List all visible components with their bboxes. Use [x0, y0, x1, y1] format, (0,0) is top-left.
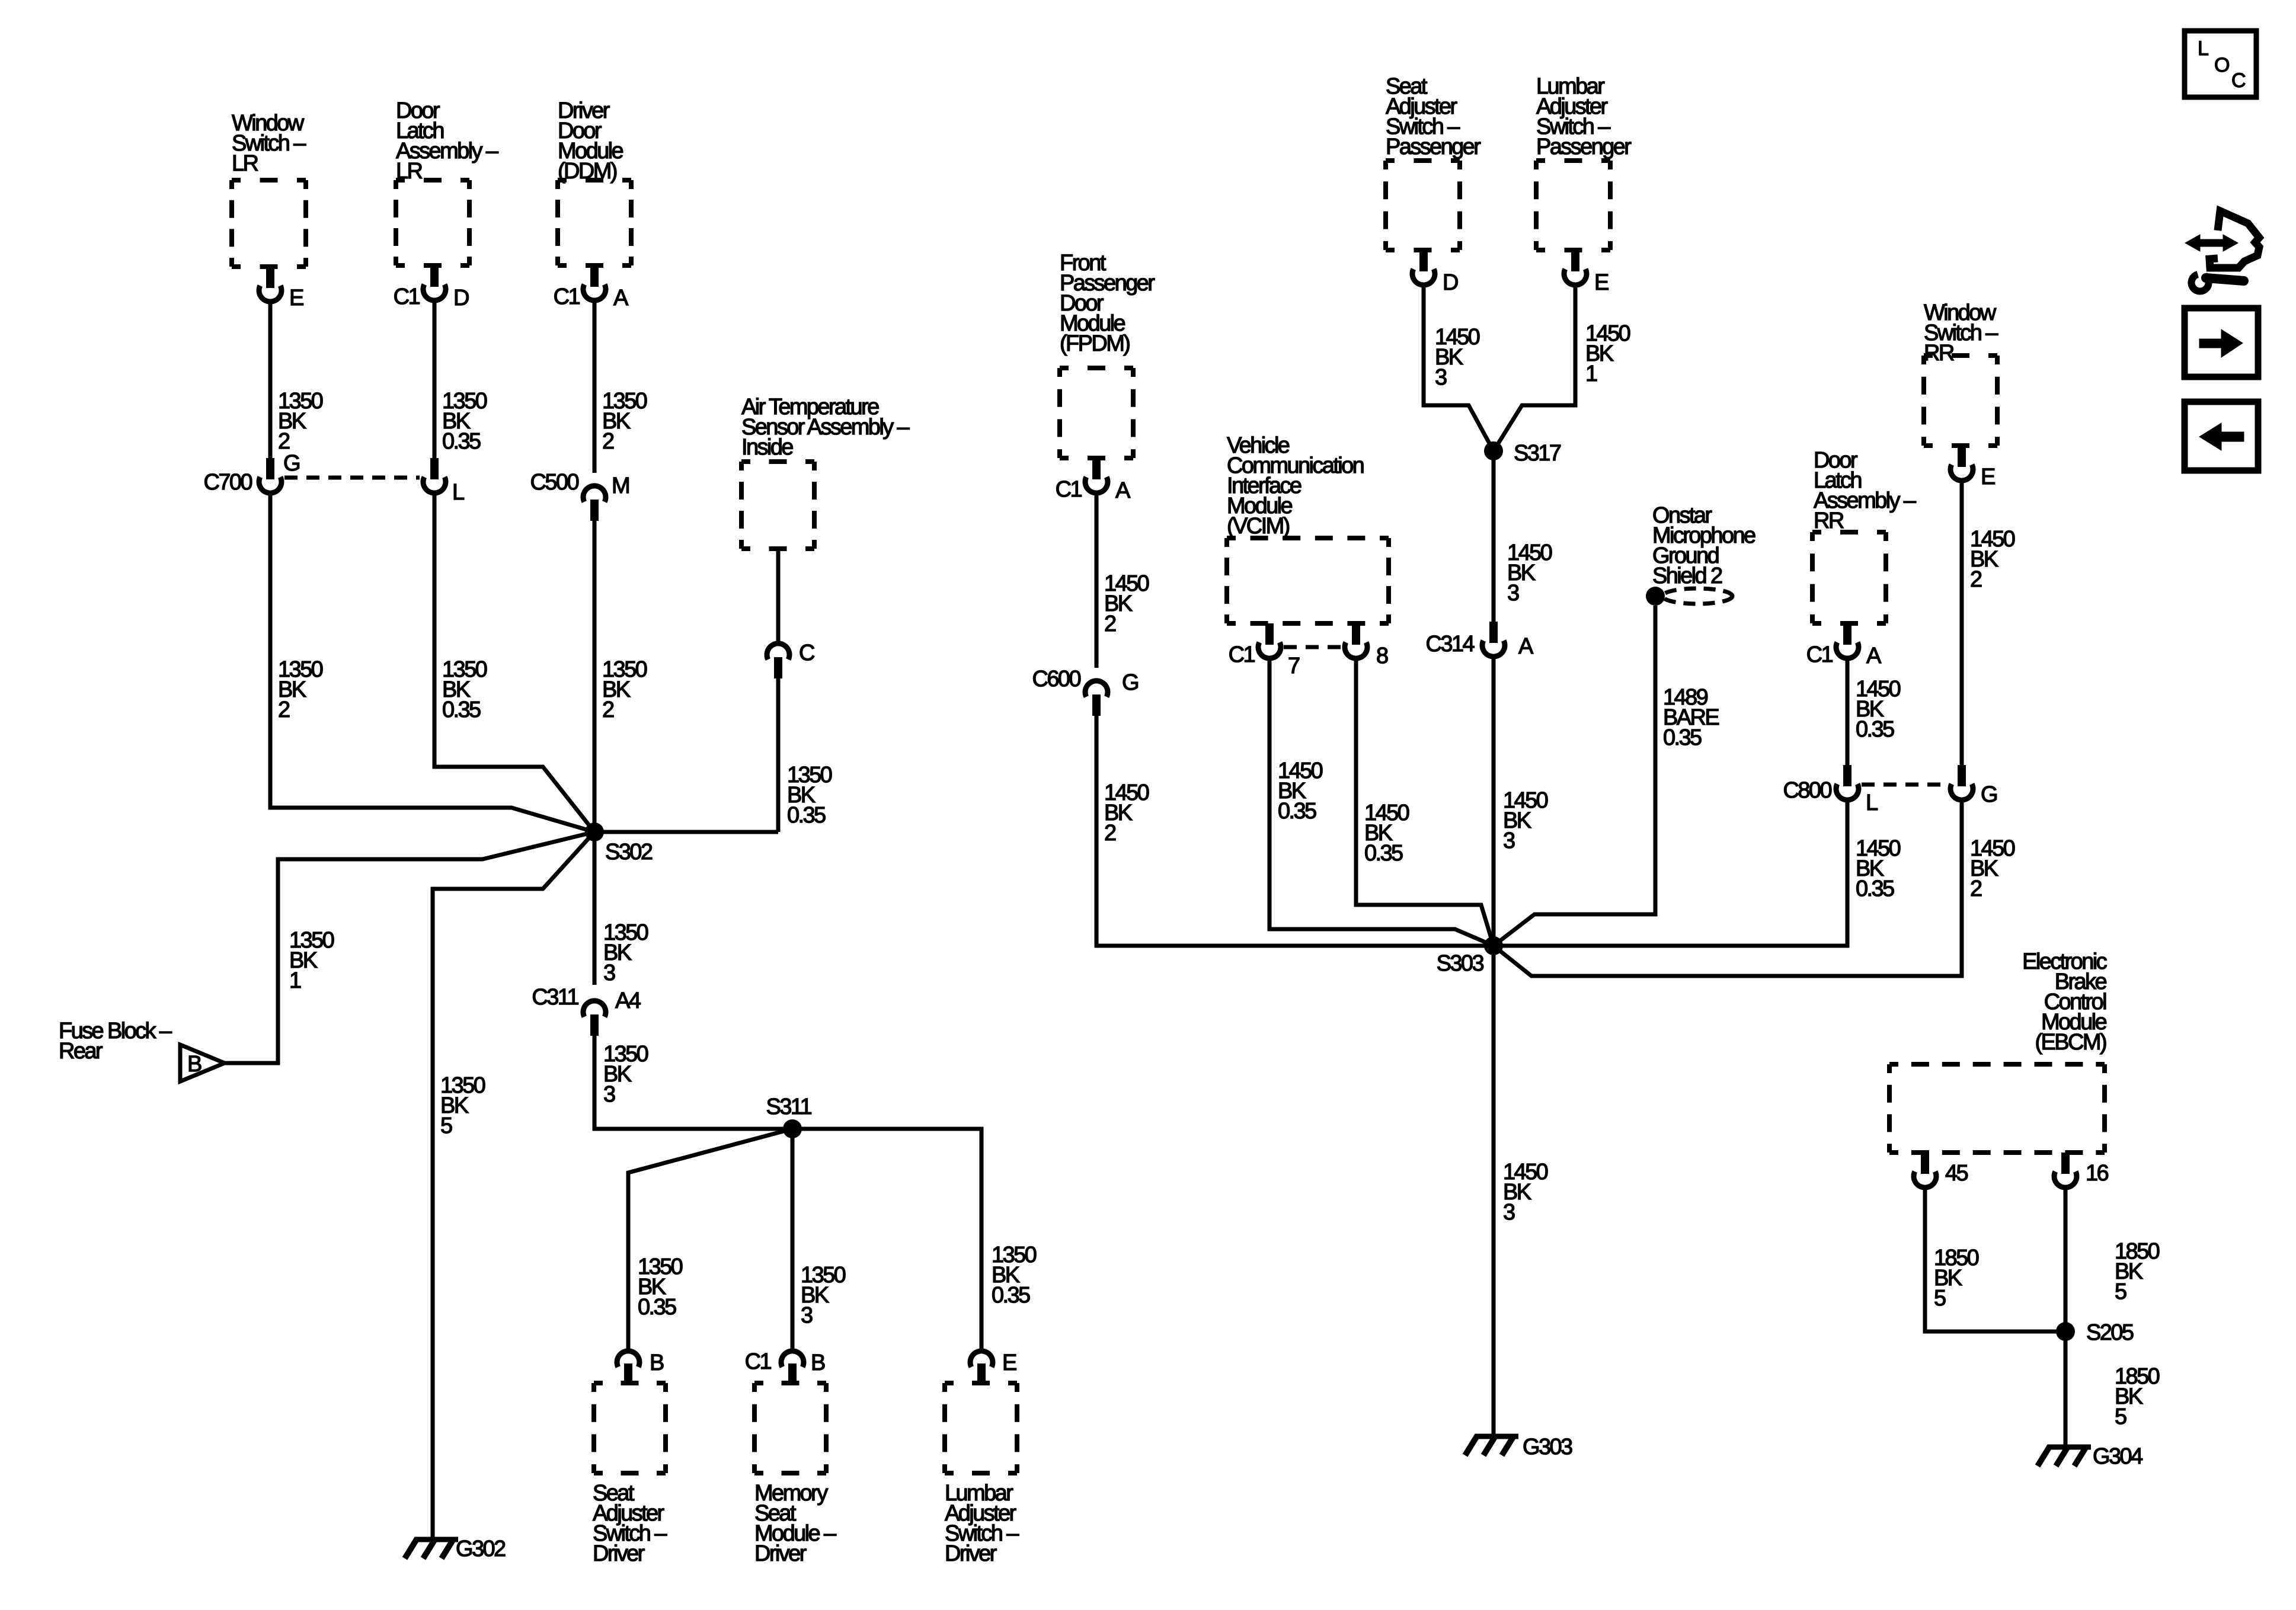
svg-text:C1: C1 [394, 284, 420, 309]
label 1450 BK 0.35 (VCIM 7) [1278, 758, 1323, 824]
connector pin C1-B of Memory Seat Module [745, 1349, 825, 1383]
wire 1350 BK 0.35 from S311 to lumbar E [792, 1129, 981, 1350]
connector pin C1-A of Door Latch RR [1806, 623, 1882, 668]
svg-text:B: B [650, 1350, 664, 1375]
svg-text:D: D [453, 286, 469, 311]
wire 1850 BK 5 from 45 to S205 [1925, 1190, 2065, 1331]
dashed link C800 L to G [1862, 783, 1948, 787]
component box: FPDM [1060, 368, 1133, 458]
component label: Window Switch - RR [1924, 300, 1998, 366]
wire 1450 BK 3 from D to S317 [1424, 287, 1494, 451]
label 1450 BK 3 (C314 to S303) [1503, 788, 1548, 853]
svg-text:(FPDM): (FPDM) [1060, 331, 1130, 356]
splice node S302 [585, 822, 653, 865]
label 1350 BK 3 (memory seat) [801, 1263, 846, 1328]
inline connector C700-G [204, 451, 299, 495]
svg-text:5: 5 [2115, 1404, 2126, 1429]
wire 1450 BK 2 from FPDM-A to C600 [1095, 495, 1099, 668]
wire 1450 BK 0.35 from VCIM-8 to S303 [1356, 661, 1494, 946]
svg-text:G302: G302 [456, 1537, 506, 1561]
wire 1350 BK 1 from fuse B to S302 [225, 832, 594, 1063]
label 1350 BK 2 (DDM lower) [602, 657, 647, 722]
label 1350 BK 3 (below C311) [603, 1042, 648, 1107]
component label: Onstar Microphone Ground Shield 2 [1652, 503, 1755, 588]
wire 1350 BK 2 from C700-G to S302 [270, 495, 594, 832]
component label: Lumbar Adjuster Switch - Passenger [1536, 74, 1632, 159]
component label: Electronic Brake Control Module (EBCM) [2022, 949, 2106, 1055]
svg-text:Passenger: Passenger [1536, 135, 1632, 159]
inline connector C800-G [1950, 765, 1997, 807]
wire from Air Temp C down [776, 678, 781, 832]
component box: Memory Seat Module Driver [754, 1383, 826, 1473]
svg-text:0.35: 0.35 [1364, 841, 1403, 866]
svg-text:0.35: 0.35 [638, 1295, 676, 1320]
connector pin B of Seat Adjuster Switch Driver [617, 1350, 664, 1383]
label 1350 BK 5 [440, 1073, 485, 1138]
component box: Lumbar Adjuster Switch Passenger [1536, 161, 1610, 250]
wire 1350 BK 0.35 from D to C700-L [433, 303, 437, 458]
svg-text:0.35: 0.35 [1663, 725, 1702, 750]
svg-text:3: 3 [603, 1082, 615, 1107]
svg-text:C314: C314 [1426, 632, 1475, 657]
wire 1450 BK 3 from C314 to S303 [1492, 659, 1496, 946]
svg-text:2: 2 [278, 697, 290, 722]
svg-text:S303: S303 [1437, 951, 1484, 976]
svg-text:A: A [1518, 634, 1534, 659]
wire 1450 BK 0.35 from A to C800-L [1846, 661, 1850, 765]
label 1350 BK 3 (above C311) [603, 920, 648, 985]
wire 1350 BK 0.35 from S311 to seat adjuster B [628, 1129, 792, 1350]
component label: Seat Adjuster Switch - Driver [593, 1481, 667, 1566]
inline connector C700-L [423, 458, 464, 505]
svg-text:LR: LR [232, 151, 258, 176]
label 1350 BK 2 (upper left) [278, 389, 323, 454]
component box: DDM [558, 180, 631, 265]
svg-text:L: L [2198, 37, 2209, 60]
svg-text:B: B [811, 1350, 825, 1375]
svg-text:G304: G304 [2093, 1444, 2143, 1469]
fuse block triangle terminal B [180, 1045, 225, 1081]
splice node S303 [1437, 936, 1503, 976]
label 1850 BK 5 (to G304) [2115, 1364, 2160, 1429]
connector pin C of Air Temp Sensor [767, 641, 814, 678]
svg-text:2: 2 [1104, 612, 1116, 636]
svg-text:E: E [1594, 270, 1609, 295]
onstar shield terminal dot [1646, 587, 1665, 606]
svg-text:G303: G303 [1523, 1435, 1572, 1459]
svg-text:G: G [1981, 782, 1997, 807]
component label: Memory Seat Module - Driver [754, 1481, 837, 1566]
connector pin E of Window Switch RR [1950, 446, 1995, 489]
svg-text:8: 8 [1376, 644, 1388, 668]
wire 1350 BK 3 from C311 to S311 [594, 1036, 792, 1129]
label 1350 BK 0.35 (lumbar driver) [992, 1243, 1037, 1308]
wire 1350 BK 2 from DDM-A to C500-M [593, 303, 597, 473]
wire 1450 BK 2 from C600 to S303 [1096, 716, 1494, 946]
svg-text:S302: S302 [605, 840, 653, 865]
svg-text:0.35: 0.35 [442, 429, 481, 454]
svg-text:A: A [1866, 644, 1882, 668]
label 1350 BK 0.35 (door latch upper) [442, 389, 487, 454]
svg-text:2: 2 [602, 697, 614, 722]
svg-text:C700: C700 [204, 470, 252, 495]
wire 1350 BK 2 from C500-M to S302 [593, 521, 597, 832]
svg-text:Rear: Rear [59, 1039, 103, 1064]
label 1450 BK 0.35 (C800-L lower) [1856, 836, 1901, 901]
connector pin C1-7 of VCIM [1229, 623, 1300, 678]
svg-text:0.35: 0.35 [1856, 717, 1894, 742]
component label: Front Passenger Door Module (FPDM) [1060, 251, 1155, 356]
svg-text:0.35: 0.35 [1856, 876, 1894, 901]
wire 1450 BK 1 from E to S317 [1494, 287, 1575, 451]
svg-text:3: 3 [603, 961, 615, 985]
label 1350 BK 0.35 (air temp) [787, 763, 832, 828]
splice node S205 [2056, 1320, 2134, 1345]
svg-text:16: 16 [2086, 1161, 2109, 1186]
svg-text:S205: S205 [2086, 1320, 2134, 1345]
label 1350 BK 2 (DDM upper) [602, 389, 647, 454]
svg-text:Driver: Driver [945, 1541, 997, 1566]
label 1350 BK 0.35 (seat adj driver) [638, 1254, 683, 1320]
label 1450 BK 3 (S317 to C314) [1507, 540, 1552, 606]
svg-text:3: 3 [801, 1303, 813, 1328]
svg-text:C600: C600 [1032, 667, 1081, 692]
icon: LOC box [2185, 31, 2256, 97]
connector pin 16 of EBCM [2054, 1153, 2109, 1188]
wire 1450 BK 0.35 from C800-L to S303 [1494, 802, 1847, 946]
ground G302 [405, 1537, 506, 1561]
wire 1450 BK 2 from E to C800-G [1960, 483, 1964, 765]
svg-text:E: E [1981, 465, 1995, 489]
component label: Air Temperature Sensor Assembly - Inside [741, 395, 910, 460]
connector pin E of Lumbar Adjuster Switch Driver [970, 1350, 1016, 1383]
wire 1489 BARE 0.35 from shield to S303 [1494, 606, 1655, 946]
svg-text:A: A [1115, 478, 1131, 503]
component box: Door Latch Assembly - LR [396, 180, 469, 265]
wire 1450 BK 3 from S317 to C314 [1492, 451, 1496, 622]
svg-text:3: 3 [1507, 581, 1519, 606]
ground G303 [1465, 1435, 1572, 1459]
wire from Air Temp box to C [776, 549, 781, 642]
inline connector C311-A4 [532, 985, 641, 1036]
svg-text:S311: S311 [766, 1094, 811, 1119]
component box: Door Latch Assembly RR [1812, 532, 1886, 623]
label 1350 BK 0.35 (door latch lower) [442, 657, 487, 722]
label 1450 BK 2 (FPDM upper) [1104, 571, 1149, 636]
component box: Lumbar Adjuster Switch Driver [945, 1383, 1017, 1473]
component label: Seat Adjuster Switch - Passenger [1386, 74, 1481, 159]
dashed link C700 G to L [284, 476, 420, 480]
connector pin 45 of EBCM [1914, 1153, 1968, 1188]
svg-text:5: 5 [440, 1113, 452, 1138]
component label: Driver Door Module (DDM) [558, 98, 623, 184]
svg-text:C1: C1 [554, 284, 580, 309]
onstar shield dashed ellipse [1662, 588, 1732, 604]
label 1850 BK 5 (pin 45) [1934, 1246, 1979, 1311]
wire air temp to S302 [594, 830, 778, 834]
icon: forward arrow box [2185, 308, 2258, 377]
svg-text:E: E [1002, 1350, 1016, 1375]
svg-text:1: 1 [289, 968, 301, 993]
svg-text:A4: A4 [615, 988, 641, 1013]
svg-text:Driver: Driver [593, 1541, 645, 1566]
svg-text:G: G [1122, 670, 1138, 695]
connector pin C1-A of DDM [554, 265, 629, 311]
connector pin C1-A of FPDM [1056, 458, 1131, 503]
svg-text:M: M [612, 473, 629, 498]
svg-text:D: D [1443, 270, 1458, 295]
svg-text:C311: C311 [532, 985, 578, 1010]
svg-text:0.35: 0.35 [1278, 799, 1316, 824]
icon: wrench [2192, 274, 2244, 292]
svg-text:3: 3 [1503, 828, 1515, 853]
wire 1350 BK 3 from S311 to memory seat B [791, 1129, 795, 1350]
dashed link VCIM pins [1284, 645, 1342, 649]
label 1450 BK 2 (window RR upper) [1970, 527, 2015, 592]
svg-text:L: L [452, 480, 464, 505]
wire 1350 BK 2 from E to C700-G [268, 304, 273, 458]
svg-text:(EBCM): (EBCM) [2035, 1030, 2106, 1055]
svg-text:C: C [799, 641, 814, 665]
svg-text:0.35: 0.35 [992, 1283, 1030, 1308]
component label: Door Latch Assembly - RR [1814, 448, 1917, 533]
svg-text:1: 1 [1585, 361, 1597, 386]
icon: double arrow [2185, 235, 2238, 251]
inline connector C800-L [1783, 765, 1878, 815]
splice node S317 [1484, 441, 1561, 466]
connector pin E of Window Switch LR [259, 267, 303, 311]
svg-text:E: E [289, 286, 303, 311]
connector pin D of Seat Adjuster Passenger [1412, 250, 1458, 295]
label 1450 BK 0.35 (door RR upper) [1856, 677, 1901, 742]
svg-text:3: 3 [1435, 365, 1447, 390]
svg-text:3: 3 [1503, 1200, 1515, 1225]
svg-text:0.35: 0.35 [787, 803, 826, 828]
svg-text:A: A [613, 286, 629, 311]
splice node S311 [766, 1094, 811, 1138]
wire 1450 BK 2 from C800-G to S303 [1494, 802, 1962, 976]
svg-text:Passenger: Passenger [1386, 135, 1481, 159]
svg-text:O: O [2214, 54, 2230, 76]
svg-text:(VCIM): (VCIM) [1227, 514, 1290, 539]
svg-text:2: 2 [1104, 821, 1116, 846]
component label: Fuse Block - Rear [59, 1019, 172, 1064]
component label: Lumbar Adjuster Switch - Driver [945, 1481, 1019, 1566]
label 1450 BK 3 (S303 to G303) [1503, 1160, 1548, 1225]
label 1350 BK 2 (window lower) [278, 657, 323, 722]
component box: Window Switch RR [1924, 356, 1997, 446]
component box: EBCM [1889, 1064, 2105, 1153]
inline connector C600-G [1032, 667, 1138, 716]
component box: Seat Adjuster Switch Driver [594, 1383, 666, 1473]
wire 1850 BK 5 from S205 to G304 [2064, 1331, 2068, 1445]
svg-text:2: 2 [1970, 567, 1982, 592]
svg-text:C500: C500 [530, 470, 579, 495]
component box: VCIM [1227, 538, 1389, 623]
icon: back arrow box [2185, 402, 2258, 470]
svg-text:2: 2 [278, 429, 290, 454]
svg-text:C1: C1 [745, 1349, 772, 1374]
svg-text:5: 5 [2115, 1279, 2126, 1304]
component box: Air Temp Sensor [741, 462, 814, 549]
connector pin E of Lumbar Adjuster Passenger [1564, 250, 1609, 295]
svg-text:C: C [2231, 69, 2246, 92]
svg-text:C1: C1 [1806, 642, 1833, 667]
component box: Seat Adjuster Switch Passenger [1386, 161, 1460, 250]
svg-text:B: B [187, 1052, 202, 1077]
svg-text:C1: C1 [1229, 642, 1255, 667]
ground G304 [2038, 1444, 2143, 1469]
svg-text:S317: S317 [1514, 441, 1561, 466]
svg-text:2: 2 [602, 429, 614, 454]
svg-text:Shield 2: Shield 2 [1652, 564, 1722, 588]
label 1350 BK 1 [289, 928, 334, 993]
wire 1850 BK 5 from 16 to S205 [2064, 1190, 2068, 1331]
svg-text:L: L [1866, 790, 1878, 815]
svg-text:Driver: Driver [754, 1541, 807, 1566]
label 1489 BARE 0.35 [1663, 685, 1719, 750]
component label: Vehicle Communication Interface Module (VCIM) [1227, 433, 1364, 539]
inline connector C500-M [530, 470, 629, 521]
label 1450 BK 1 (lumbar passenger) [1585, 321, 1630, 386]
label 1450 BK 3 (seat adj passenger) [1435, 325, 1480, 390]
svg-text:C1: C1 [1056, 477, 1082, 502]
connector pin 8 of VCIM [1345, 623, 1388, 668]
component label: Window Switch - LR [232, 111, 306, 176]
wire 1450 BK 0.35 from VCIM-7 to S303 [1269, 661, 1494, 946]
svg-text:RR: RR [1814, 508, 1844, 533]
svg-text:C800: C800 [1783, 778, 1832, 803]
label 1450 BK 2 (FPDM lower) [1104, 780, 1149, 846]
svg-text:45: 45 [1945, 1161, 1968, 1186]
wire 1350 BK 3 from S302 to C311 [593, 832, 597, 985]
icon: routing outline [2209, 211, 2259, 268]
label 1450 BK 0.35 (VCIM 8) [1364, 801, 1409, 866]
component box: Window Switch - LR [232, 180, 306, 267]
wire 1350 BK 0.35 from C700-L to S302 [434, 495, 594, 832]
svg-text:0.35: 0.35 [442, 697, 481, 722]
connector pin C1-D of Door Latch LR [394, 265, 469, 311]
component label: Door Latch Assembly - LR [396, 98, 499, 184]
wire 1350 BK 5 from S302 to G302 [433, 832, 594, 1537]
svg-text:7: 7 [1288, 654, 1300, 678]
wire 1450 BK 3 from S303 to G303 [1492, 946, 1496, 1434]
inline connector C314-A [1426, 622, 1534, 659]
svg-text:G: G [283, 451, 299, 476]
svg-text:5: 5 [1934, 1286, 1946, 1311]
svg-text:Inside: Inside [741, 435, 793, 460]
label 1450 BK 2 (C800-G lower) [1970, 836, 2015, 901]
label 1850 BK 5 (pin 16) [2115, 1239, 2160, 1304]
svg-text:2: 2 [1970, 876, 1982, 901]
